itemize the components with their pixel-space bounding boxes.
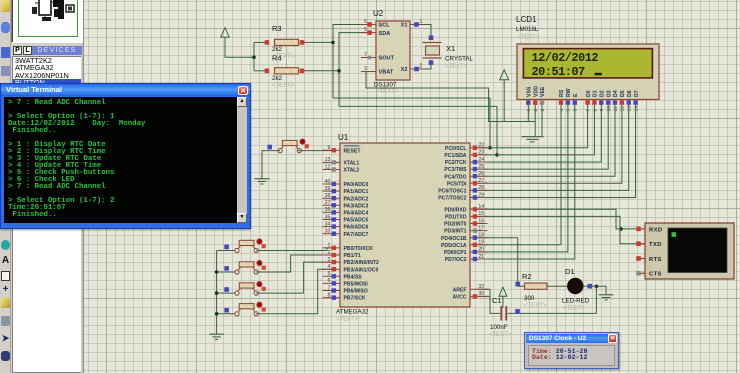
svg-text:3: 3 bbox=[364, 66, 367, 72]
svg-text:20: 20 bbox=[478, 247, 484, 253]
svg-text:XTAL1: XTAL1 bbox=[344, 161, 360, 167]
svg-text:LCD1: LCD1 bbox=[516, 15, 537, 24]
svg-text:VDD: VDD bbox=[533, 86, 539, 97]
svg-text:VEE: VEE bbox=[540, 86, 546, 97]
svg-text:D3: D3 bbox=[606, 90, 612, 97]
svg-text:PA2/ADC2: PA2/ADC2 bbox=[344, 196, 369, 202]
svg-text:34: 34 bbox=[325, 221, 331, 227]
svg-text:13: 13 bbox=[627, 106, 633, 112]
svg-text:18: 18 bbox=[478, 233, 484, 239]
svg-text:39: 39 bbox=[325, 186, 331, 192]
svg-text:30: 30 bbox=[478, 291, 484, 297]
svg-text:C1: C1 bbox=[492, 296, 502, 305]
svg-text:11: 11 bbox=[613, 106, 619, 111]
svg-text:PC0/SCL: PC0/SCL bbox=[445, 146, 467, 152]
svg-text:PB5/MOSI: PB5/MOSI bbox=[344, 282, 369, 288]
svg-text:<TEXT>: <TEXT> bbox=[336, 317, 359, 323]
svg-text:X1: X1 bbox=[401, 23, 408, 29]
svg-text:7: 7 bbox=[328, 285, 331, 291]
svg-text:PB1/T1: PB1/T1 bbox=[344, 253, 361, 259]
svg-text:PD7/OC2: PD7/OC2 bbox=[445, 257, 467, 263]
svg-text:TXD: TXD bbox=[649, 242, 662, 248]
svg-text:PA3/ADC3: PA3/ADC3 bbox=[344, 203, 369, 209]
svg-text:PD3/INT1: PD3/INT1 bbox=[444, 229, 467, 235]
svg-text:36: 36 bbox=[325, 207, 331, 213]
svg-text:PC7/TOSC2: PC7/TOSC2 bbox=[438, 196, 466, 202]
svg-text:3: 3 bbox=[328, 257, 331, 263]
svg-text:D6: D6 bbox=[627, 90, 633, 97]
svg-text:37: 37 bbox=[325, 200, 331, 206]
svg-text:6: 6 bbox=[573, 109, 579, 112]
svg-text:U2: U2 bbox=[373, 9, 384, 18]
svg-text:6: 6 bbox=[328, 278, 331, 284]
svg-text:RS: RS bbox=[559, 89, 565, 97]
svg-text:4: 4 bbox=[328, 264, 331, 270]
svg-text:D4: D4 bbox=[613, 90, 619, 97]
svg-text:R3: R3 bbox=[272, 24, 282, 33]
svg-text:PD2/INT0: PD2/INT0 bbox=[444, 222, 467, 228]
svg-text:14: 14 bbox=[478, 204, 484, 210]
svg-text:<TEXT>: <TEXT> bbox=[376, 89, 399, 95]
svg-text:SDA: SDA bbox=[379, 31, 391, 37]
svg-text:PA0/ADC0: PA0/ADC0 bbox=[344, 182, 369, 188]
svg-text:VBAT: VBAT bbox=[379, 70, 394, 76]
svg-text:VSS: VSS bbox=[527, 86, 533, 97]
svg-text:PB3/AIN1/OC0: PB3/AIN1/OC0 bbox=[344, 267, 379, 273]
svg-text:1: 1 bbox=[526, 109, 532, 112]
svg-text:40: 40 bbox=[325, 179, 331, 185]
svg-text:<TEXT>: <TEXT> bbox=[272, 83, 295, 89]
svg-text:PB4/SS: PB4/SS bbox=[344, 274, 363, 280]
svg-text:21: 21 bbox=[478, 254, 484, 260]
svg-text:26: 26 bbox=[478, 171, 484, 177]
svg-text:20:51:07: 20:51:07 bbox=[532, 65, 586, 79]
svg-text:10: 10 bbox=[606, 106, 612, 112]
svg-text:<TEXT>: <TEXT> bbox=[489, 332, 512, 338]
svg-text:PC4/TDO: PC4/TDO bbox=[444, 174, 466, 180]
svg-text:<TEXT>: <TEXT> bbox=[517, 35, 540, 41]
svg-text:7: 7 bbox=[585, 109, 591, 112]
svg-text:9: 9 bbox=[328, 145, 331, 151]
svg-text:PD5/OC1A: PD5/OC1A bbox=[441, 243, 467, 249]
svg-text:35: 35 bbox=[325, 214, 331, 220]
svg-text:LM016L: LM016L bbox=[516, 26, 539, 33]
svg-text:4: 4 bbox=[559, 109, 565, 112]
svg-text:RESET: RESET bbox=[344, 148, 362, 154]
svg-text:6: 6 bbox=[364, 19, 367, 25]
svg-text:AREF: AREF bbox=[453, 287, 467, 293]
svg-text:CTS: CTS bbox=[649, 272, 662, 278]
svg-text:D5: D5 bbox=[620, 90, 626, 97]
svg-text:8: 8 bbox=[328, 292, 331, 298]
svg-text:<TEXT>: <TEXT> bbox=[563, 306, 586, 312]
svg-text:U1: U1 bbox=[338, 133, 349, 142]
svg-text:2: 2 bbox=[420, 64, 423, 70]
svg-text:2: 2 bbox=[328, 250, 331, 256]
svg-text:5: 5 bbox=[364, 27, 367, 33]
svg-text:2k2: 2k2 bbox=[272, 46, 283, 53]
svg-text:PD1/TXD: PD1/TXD bbox=[445, 215, 467, 221]
svg-text:24: 24 bbox=[478, 157, 484, 163]
svg-text:PC6/TOSC1: PC6/TOSC1 bbox=[438, 189, 466, 195]
svg-text:PC5/TDI: PC5/TDI bbox=[447, 181, 467, 187]
svg-text:12: 12 bbox=[325, 164, 331, 170]
svg-text:SCL: SCL bbox=[379, 23, 391, 29]
svg-text:2k2: 2k2 bbox=[272, 75, 283, 82]
svg-text:X2: X2 bbox=[401, 67, 408, 73]
svg-text:100nF: 100nF bbox=[490, 324, 508, 331]
svg-text:CRYSTAL: CRYSTAL bbox=[445, 56, 474, 63]
svg-text:PA6/ADC6: PA6/ADC6 bbox=[344, 225, 369, 231]
svg-text:8: 8 bbox=[592, 109, 598, 112]
svg-text:13: 13 bbox=[325, 157, 331, 163]
svg-text:D2: D2 bbox=[600, 90, 606, 97]
svg-text:R2: R2 bbox=[522, 272, 532, 281]
svg-text:2: 2 bbox=[533, 109, 539, 112]
svg-text:D7: D7 bbox=[634, 90, 640, 97]
svg-text:1: 1 bbox=[328, 243, 331, 249]
svg-text:AVCC: AVCC bbox=[452, 295, 466, 301]
svg-text:33: 33 bbox=[325, 229, 331, 235]
svg-text:12: 12 bbox=[620, 106, 626, 112]
svg-text:RW: RW bbox=[566, 88, 572, 97]
svg-text:5: 5 bbox=[566, 109, 572, 112]
svg-text:R4: R4 bbox=[272, 54, 282, 63]
svg-text:12/02/2012: 12/02/2012 bbox=[532, 51, 599, 65]
svg-text:29: 29 bbox=[478, 192, 484, 198]
svg-text:25: 25 bbox=[478, 164, 484, 170]
svg-text:1: 1 bbox=[420, 19, 423, 25]
svg-text:XTAL2: XTAL2 bbox=[344, 168, 360, 174]
svg-text:PA4/ADC4: PA4/ADC4 bbox=[344, 211, 369, 217]
svg-text:19: 19 bbox=[478, 240, 484, 246]
svg-text:ATMEGA32: ATMEGA32 bbox=[336, 309, 369, 316]
svg-text:27: 27 bbox=[478, 178, 484, 184]
svg-text:PC1/SDA: PC1/SDA bbox=[444, 153, 466, 159]
svg-text:PC3/TMS: PC3/TMS bbox=[444, 167, 467, 173]
svg-text:PD0/RXD: PD0/RXD bbox=[444, 207, 466, 213]
svg-text:E: E bbox=[573, 93, 579, 97]
svg-text:PA1/ADC1: PA1/ADC1 bbox=[344, 189, 369, 195]
svg-text:3: 3 bbox=[540, 109, 546, 112]
svg-text:300: 300 bbox=[524, 295, 535, 302]
svg-text:15: 15 bbox=[478, 211, 484, 217]
svg-text:LED-RED: LED-RED bbox=[562, 298, 590, 305]
svg-text:28: 28 bbox=[478, 185, 484, 191]
svg-text:PD4/OC1B: PD4/OC1B bbox=[441, 236, 467, 242]
svg-text:D1: D1 bbox=[593, 90, 599, 97]
svg-text:X1: X1 bbox=[446, 44, 455, 53]
svg-text:PA5/ADC5: PA5/ADC5 bbox=[344, 218, 369, 224]
svg-text:D0: D0 bbox=[586, 90, 592, 97]
svg-text:PB0/T0/XCK: PB0/T0/XCK bbox=[344, 246, 374, 252]
svg-text:16: 16 bbox=[478, 218, 484, 224]
svg-text:PB6/MISO: PB6/MISO bbox=[344, 289, 368, 295]
svg-text:RTS: RTS bbox=[649, 257, 662, 263]
svg-text:<TEXT>: <TEXT> bbox=[524, 303, 547, 309]
svg-text:<TEXT>: <TEXT> bbox=[445, 64, 468, 70]
svg-text:PA7/ADC7: PA7/ADC7 bbox=[344, 232, 369, 238]
svg-text:PD6/ICP1: PD6/ICP1 bbox=[444, 250, 467, 256]
svg-text:PB2/AIN0/INT2: PB2/AIN0/INT2 bbox=[344, 260, 380, 266]
svg-text:14: 14 bbox=[633, 106, 639, 112]
svg-text:38: 38 bbox=[325, 193, 331, 199]
svg-text:PC2/TCK: PC2/TCK bbox=[445, 160, 467, 166]
svg-text:17: 17 bbox=[478, 225, 484, 231]
svg-text:32: 32 bbox=[478, 284, 484, 290]
svg-text:9: 9 bbox=[599, 109, 605, 112]
svg-text:23: 23 bbox=[478, 150, 484, 156]
svg-text:SOUT: SOUT bbox=[379, 56, 395, 62]
svg-text:PB7/SCK: PB7/SCK bbox=[344, 296, 366, 302]
svg-text:D1: D1 bbox=[565, 267, 575, 276]
svg-text:7: 7 bbox=[364, 52, 367, 58]
svg-text:RXD: RXD bbox=[649, 227, 662, 233]
svg-text:22: 22 bbox=[478, 143, 484, 149]
svg-text:5: 5 bbox=[328, 271, 331, 277]
svg-text:DS1307: DS1307 bbox=[374, 82, 397, 89]
